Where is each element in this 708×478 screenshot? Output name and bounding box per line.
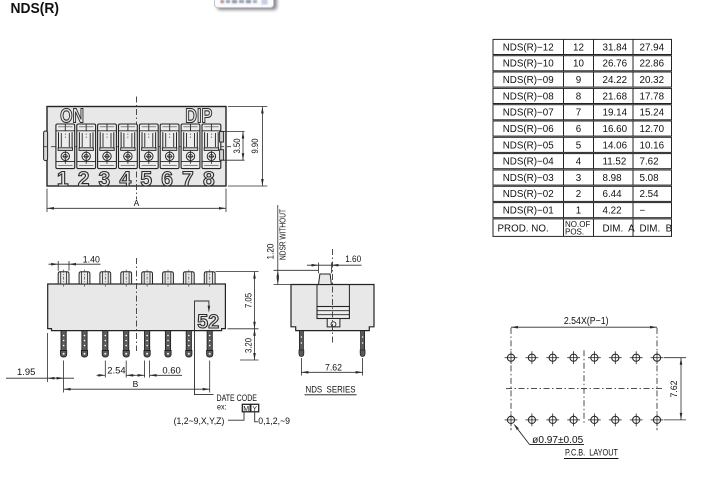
svg-text:9.90: 9.90 — [250, 139, 261, 154]
switch S2 — [77, 124, 96, 169]
dimension 1.95 — [6, 333, 74, 382]
svg-text:12.70: 12.70 — [640, 124, 665, 135]
switch S6 — [160, 124, 179, 169]
dimension 7.62 side — [301, 358, 362, 376]
svg-text:16.60: 16.60 — [603, 124, 628, 135]
svg-text:7.62: 7.62 — [669, 381, 680, 398]
hole row2 col7 — [630, 414, 643, 427]
NDS SERIES label — [305, 384, 357, 394]
table row NDS(R)-06 — [493, 121, 672, 136]
date code M box — [242, 404, 250, 413]
svg-text:1: 1 — [576, 206, 581, 217]
svg-text:−: − — [640, 206, 646, 217]
svg-text:19.14: 19.14 — [603, 108, 628, 119]
svg-text:11.52: 11.52 — [603, 157, 627, 168]
table row NDS(R)-03 — [493, 170, 672, 185]
svg-text:6.44: 6.44 — [603, 189, 623, 200]
svg-text:1.60: 1.60 — [345, 254, 361, 265]
front view body — [48, 284, 226, 331]
actuator 3 — [100, 270, 111, 288]
svg-text:1.95: 1.95 — [17, 367, 35, 378]
top view left mounting tab — [44, 131, 48, 161]
svg-text:9: 9 — [576, 75, 581, 86]
svg-text:(1,2~9,X,Y,Z): (1,2~9,X,Y,Z) — [174, 416, 225, 427]
side pin 1 — [299, 331, 304, 357]
pin 6 — [165, 331, 171, 357]
svg-text:NDS(R)−08: NDS(R)−08 — [503, 91, 554, 102]
svg-text:8: 8 — [203, 168, 215, 191]
svg-text:NDS(R): NDS(R) — [11, 1, 60, 17]
svg-text:NDS(R)−12: NDS(R)−12 — [503, 42, 554, 53]
hole row2 col1 — [505, 414, 518, 427]
actuator 1 — [58, 270, 69, 288]
hole row2 col3 — [546, 414, 559, 427]
svg-text:2: 2 — [78, 168, 90, 191]
svg-text:ex:: ex: — [217, 401, 227, 411]
dimension 2.54X(P-1) — [511, 316, 657, 328]
pin 2 — [81, 331, 87, 357]
svg-text:NDS(R)−05: NDS(R)−05 — [503, 140, 554, 151]
pcb right centerline — [656, 328, 658, 430]
dimension 9.90 — [228, 107, 267, 187]
svg-text:5: 5 — [576, 140, 582, 151]
svg-text:7.62: 7.62 — [325, 362, 342, 373]
actuator 8 — [204, 270, 215, 288]
svg-text:15.24: 15.24 — [640, 108, 665, 119]
hole row2 col4 — [567, 414, 580, 427]
pin 8 — [207, 331, 213, 357]
svg-text:10.16: 10.16 — [640, 140, 665, 151]
P.C.B. LAYOUT label — [564, 448, 619, 459]
dimension 7.62 pcb — [664, 358, 686, 420]
top view vertical centerline — [136, 97, 138, 200]
svg-text:NDS(R)−04: NDS(R)−04 — [503, 157, 554, 168]
table header row — [493, 219, 673, 237]
hole row1 col4 — [567, 351, 580, 364]
svg-text:31.84: 31.84 — [603, 42, 628, 53]
hole row2 col6 — [609, 414, 622, 427]
pin 3 — [102, 331, 108, 357]
hole row1 col7 — [630, 351, 643, 364]
switch S4 — [119, 124, 138, 169]
svg-text:2.54X(P−1): 2.54X(P−1) — [564, 316, 609, 327]
month code connector — [228, 413, 244, 421]
switch S8 — [202, 124, 221, 169]
svg-text:POS.: POS. — [565, 227, 584, 236]
dimension B — [64, 361, 210, 393]
hole row2 col8 — [651, 414, 664, 427]
svg-text:NDS SERIES: NDS SERIES — [306, 384, 356, 394]
actuator 5 — [142, 270, 153, 288]
dimension 2.54 — [97, 361, 136, 378]
svg-text:2: 2 — [576, 189, 581, 200]
svg-text:NDS(R)−01: NDS(R)−01 — [503, 206, 554, 217]
svg-text:P.C.B. LAYOUT: P.C.B. LAYOUT — [565, 448, 618, 459]
svg-text:5: 5 — [140, 168, 152, 191]
translation tooltip remnant — [215, 0, 278, 10]
svg-text:14.06: 14.06 — [603, 140, 628, 151]
svg-text:7: 7 — [576, 108, 581, 119]
hole row2 col5 — [588, 414, 601, 427]
svg-text:7.62: 7.62 — [640, 157, 659, 168]
side view bottom tab — [327, 319, 340, 327]
svg-text:3: 3 — [99, 168, 111, 191]
svg-text:52: 52 — [197, 312, 219, 333]
svg-text:20.32: 20.32 — [640, 75, 665, 86]
table row NDS(R)-01 — [493, 203, 672, 218]
svg-text:10: 10 — [573, 59, 584, 70]
svg-text:6: 6 — [576, 124, 582, 135]
svg-text:22.86: 22.86 — [640, 59, 665, 70]
svg-text:A: A — [134, 198, 140, 208]
side view mechanism box — [317, 307, 349, 319]
switch S3 — [98, 124, 117, 169]
table row NDS(R)-09 — [493, 72, 672, 87]
dimension 3.20 — [240, 329, 259, 360]
svg-text:NDS(R)−07: NDS(R)−07 — [503, 108, 554, 119]
svg-text:0,1,2,~9: 0,1,2,~9 — [258, 416, 290, 427]
svg-text:6: 6 — [161, 168, 173, 191]
svg-text:4.22: 4.22 — [603, 206, 622, 217]
svg-text:NDS(R)−09: NDS(R)−09 — [503, 75, 554, 86]
pcb left centerline — [510, 328, 512, 430]
table row NDS(R)-05 — [493, 137, 672, 152]
pin 1 — [61, 331, 67, 357]
table row NDS(R)-04 — [493, 154, 672, 169]
top view body — [47, 107, 226, 187]
svg-text:DIM. A: DIM. A — [603, 224, 636, 235]
svg-text:4: 4 — [576, 157, 582, 168]
svg-text:3: 3 — [576, 173, 582, 184]
date code text — [217, 393, 258, 411]
hole row1 col8 — [651, 351, 664, 364]
date code Y box — [251, 404, 259, 413]
svg-text:5.08: 5.08 — [640, 173, 660, 184]
table row NDS(R)-07 — [493, 105, 672, 120]
pcb horizontal centerline — [506, 388, 663, 390]
front view vertical centerline — [136, 258, 138, 351]
hole row1 col1 — [505, 351, 518, 364]
actuator 2 — [79, 270, 90, 288]
pin 7 — [186, 331, 192, 357]
date code callout leader — [195, 301, 214, 395]
svg-text:NDS(R)−03: NDS(R)−03 — [503, 173, 554, 184]
svg-text:4: 4 — [119, 168, 131, 191]
dimension 0.60 — [133, 361, 182, 378]
hole row2 col2 — [526, 414, 539, 427]
top view right slot tabs — [220, 132, 224, 161]
table row NDS(R)-10 — [493, 56, 672, 71]
svg-text:26.76: 26.76 — [603, 59, 628, 70]
dimension 7.05 — [216, 272, 259, 329]
hole row1 col5 — [588, 351, 601, 364]
svg-text:1: 1 — [57, 168, 69, 191]
hole diameter callout — [514, 424, 585, 446]
side pin 2 — [360, 331, 365, 357]
side view slot walls — [317, 285, 349, 307]
dimension 1.20 NDSR WITHOUT — [265, 205, 318, 285]
svg-text:1.20: 1.20 — [265, 244, 276, 260]
side view actuator — [319, 274, 332, 285]
side view centerline — [332, 249, 334, 345]
svg-text:NDS(R)−10: NDS(R)−10 — [503, 59, 554, 70]
svg-text:ø0.97±0.05: ø0.97±0.05 — [532, 435, 583, 446]
hole row1 col6 — [609, 351, 622, 364]
svg-text:M: M — [243, 406, 249, 413]
actuator 7 — [183, 270, 194, 288]
side view body — [291, 285, 374, 331]
svg-text:8.98: 8.98 — [603, 173, 623, 184]
svg-text:0.60: 0.60 — [162, 365, 180, 376]
actuator 4 — [121, 270, 132, 288]
svg-text:3.50: 3.50 — [232, 139, 243, 154]
svg-text:7.05: 7.05 — [244, 293, 255, 308]
svg-text:21.68: 21.68 — [603, 91, 628, 102]
svg-text:Y: Y — [252, 406, 257, 413]
pin 5 — [144, 331, 150, 357]
svg-text:DIM. B: DIM. B — [640, 224, 673, 235]
svg-text:27.94: 27.94 — [640, 42, 665, 53]
pcb vertical centerline — [583, 350, 585, 423]
svg-text:12: 12 — [573, 42, 584, 53]
top view horizontal centerline — [43, 146, 231, 148]
dimension 3.50 — [221, 132, 245, 161]
svg-text:NDS(R)−06: NDS(R)−06 — [503, 124, 554, 135]
switch S7 — [181, 124, 200, 169]
svg-text:NDS(R)−02: NDS(R)−02 — [503, 189, 554, 200]
actuator 6 — [163, 270, 174, 288]
svg-text:17.78: 17.78 — [640, 91, 665, 102]
year code connector — [255, 413, 258, 422]
table row NDS(R)-12 — [493, 39, 672, 54]
dimension 1.40 — [49, 255, 101, 271]
svg-text:B: B — [133, 379, 139, 389]
svg-text:3.20: 3.20 — [244, 338, 255, 353]
svg-text:NDSR WITHOUT: NDSR WITHOUT — [277, 209, 287, 260]
switch S1 — [56, 124, 75, 169]
table row NDS(R)-02 — [493, 186, 672, 201]
dimension A — [47, 189, 226, 213]
hole row1 col2 — [526, 351, 539, 364]
switch S5 — [139, 124, 158, 169]
svg-text:2.54: 2.54 — [640, 189, 660, 200]
pin 4 — [123, 331, 129, 357]
svg-text:2.54: 2.54 — [107, 365, 125, 376]
svg-text:PROD. NO.: PROD. NO. — [498, 224, 549, 235]
dimension 1.60 — [307, 254, 362, 273]
svg-text:24.22: 24.22 — [603, 75, 628, 86]
svg-text:1.40: 1.40 — [83, 255, 100, 266]
svg-text:8: 8 — [576, 91, 582, 102]
hole row1 col3 — [546, 351, 559, 364]
svg-text:7: 7 — [182, 168, 194, 191]
table row NDS(R)-08 — [493, 88, 672, 103]
